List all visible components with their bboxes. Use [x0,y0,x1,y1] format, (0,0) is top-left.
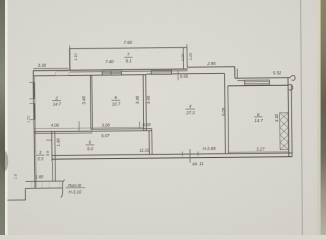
svg-text:11.02: 11.02 [139,147,150,152]
window ticks left [29,81,33,83]
svg-text:27.3: 27.3 [185,110,195,115]
porch hatch [32,181,60,188]
balcony right edge [182,48,184,70]
porch band bottom [26,187,63,189]
svg-text:5.55: 5.55 [180,74,189,79]
svg-text:1.80: 1.80 [35,174,44,179]
step verticals top right [234,67,236,78]
kv tick [189,149,191,163]
left wall window upper [33,82,35,98]
wall corridor | room4 [148,131,150,155]
wall tick right [197,151,199,155]
window room6m [102,71,121,75]
stamp fraction bar [66,187,86,189]
svg-text:Лит-В: Лит-В [67,183,81,188]
svg-text:1.48: 1.48 [55,138,60,147]
svg-text:Н-3.10: Н-3.10 [68,189,82,194]
balcony top rail [69,47,187,48]
svg-text:1.8: 1.8 [14,173,18,179]
right section sill line [237,79,244,81]
left edge smudge [1,151,8,171]
svg-text:3.27: 3.27 [256,147,265,152]
svg-text:3.48: 3.48 [81,96,86,105]
right section outer line [235,77,290,80]
room4 ceiling line [146,72,224,75]
svg-text:3.08: 3.08 [102,123,111,128]
top wall middle line under balcony [70,71,188,72]
svg-text:3.48: 3.48 [135,95,140,104]
wall end curl lower [288,84,293,90]
porch band top [26,180,63,182]
svg-text:6: 6 [115,95,118,100]
faint window left [56,72,69,76]
hatched duct block [280,113,289,150]
window room4 [151,70,171,74]
svg-text:4.06: 4.06 [51,122,60,127]
svg-text:6: 6 [257,112,260,117]
top wall outer line [33,69,188,71]
paper left dark edge [0,0,5,235]
svg-text:8.69: 8.69 [142,122,151,127]
svg-text:3.48: 3.48 [146,95,151,104]
dim 5.55 tick [177,71,179,80]
svg-text:1.20: 1.20 [189,52,193,60]
right section inner ceiling [228,84,288,87]
left edge highlight [5,0,8,235]
dim tick [139,121,141,127]
svg-text:14.7: 14.7 [254,118,263,123]
svg-text:5: 5 [89,140,92,145]
svg-text:0.9: 0.9 [46,151,50,156]
svg-text:8.1: 8.1 [126,58,133,63]
wall end curl top right [290,75,295,80]
svg-text:10.7: 10.7 [112,101,121,106]
balcony left edge [69,49,71,71]
right edge olive strip [321,0,326,235]
svg-text:5.09: 5.09 [221,107,226,116]
svg-text:3: 3 [39,150,42,155]
tick above balcony right corner [186,44,188,49]
wall room3 | corridor [51,131,53,161]
wall room4 | room6r [224,73,227,153]
wall tick left [181,152,183,156]
svg-text:5.52: 5.52 [273,70,282,75]
svg-text:7.40: 7.40 [105,59,114,64]
svg-text:14.7: 14.7 [53,102,62,107]
brace [60,180,65,198]
printed frame line right [301,0,303,235]
svg-text:6.07: 6.07 [101,133,110,138]
svg-text:2.95: 2.95 [206,61,216,66]
svg-text:9.0: 9.0 [87,146,94,151]
svg-text:7: 7 [127,52,130,57]
right paper edge cream line [317,0,321,235]
top wall inner line left [33,75,146,76]
svg-text:кв. 11: кв. 11 [193,161,205,166]
outer wall segment right of balcony (2.95 line) [187,66,235,68]
svg-text:1.52: 1.52 [26,115,30,123]
left wall window lower [33,103,35,119]
door tick room3 [46,139,52,141]
svg-text:1.10: 1.10 [74,52,78,60]
dim line 3.30 [33,67,68,69]
svg-text:2: 2 [54,95,58,100]
dim tick [78,121,80,131]
svg-text:4.32: 4.32 [274,113,279,122]
dim 3.27 line [229,151,289,154]
svg-text:5.5: 5.5 [37,156,44,161]
window right section [245,80,270,85]
svg-text:1.10: 1.10 [181,53,185,61]
bottom-left step [7,188,25,200]
svg-text:7.60: 7.60 [124,40,133,45]
room6m bottom wall [91,128,152,131]
room2 bottom wall [34,130,92,133]
svg-text:Н-2.85: Н-2.85 [203,146,217,151]
svg-text:3.30: 3.30 [38,63,47,68]
svg-text:4: 4 [189,104,192,109]
wall room2 | room6m [89,75,92,129]
wall room6m | room4 [142,74,145,130]
tick above balcony left corner [69,45,71,50]
